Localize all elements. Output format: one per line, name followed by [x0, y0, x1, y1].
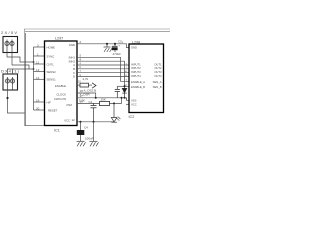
- svg-text:OUT1: OUT1: [154, 62, 162, 66]
- svg-text:H/F: H/F: [47, 100, 52, 104]
- junction top rail a: [106, 43, 108, 45]
- svg-text:CLOCK: CLOCK: [56, 92, 66, 96]
- junction enb: [124, 85, 126, 87]
- junction X2 gnd: [6, 97, 8, 99]
- LED D1: [111, 103, 120, 122]
- wire H/F pin19: [34, 101, 45, 103]
- junction bus b: [33, 68, 35, 70]
- svg-text:VSS: VSS: [131, 98, 137, 102]
- svg-text:CW/CCW: CW/CCW: [54, 97, 66, 101]
- wire INH1 to ENABLE_A: [77, 57, 129, 81]
- arrow off-page enable: [92, 83, 96, 88]
- svg-text:OSZ: OSZ: [66, 103, 72, 107]
- svg-text:INPUT3: INPUT3: [131, 70, 141, 74]
- wire X1 pin1 to net: [7, 53, 34, 63]
- frame left line: [24, 29, 26, 126]
- svg-text:SEN_A: SEN_A: [153, 80, 162, 84]
- svg-text:SYNC: SYNC: [47, 54, 55, 58]
- svg-text:SEN_B: SEN_B: [153, 85, 162, 89]
- wire X2 pin2 up: [12, 69, 14, 74]
- wire D to INPUT4: [77, 76, 129, 78]
- svg-text:CNTL: CNTL: [47, 62, 55, 66]
- resistor R1 4.7k: [80, 77, 89, 87]
- svg-text:20: 20: [36, 107, 40, 111]
- connector X1: [3, 37, 18, 53]
- capacitor C4: [77, 122, 94, 141]
- wire OSC row left: [77, 102, 100, 104]
- junction bus a: [33, 61, 35, 63]
- svg-text:12: 12: [72, 118, 76, 122]
- svg-text:19: 19: [36, 99, 40, 103]
- wire SENS1 pin14: [34, 78, 45, 80]
- svg-text:ENABLE: ENABLE: [55, 84, 66, 88]
- wire c1 gnd stub: [93, 122, 95, 141]
- wire X2 ground run: [8, 90, 25, 113]
- connector X2 pin 1: [5, 77, 9, 90]
- junction R2 out: [113, 102, 115, 104]
- connector X1 pin 1: [5, 40, 9, 53]
- svg-text:10K: 10K: [101, 98, 106, 102]
- wire left bus: [33, 47, 35, 110]
- junction top rail b: [114, 43, 116, 45]
- junction riser top: [121, 97, 123, 99]
- wire ENABLE_B seg: [117, 85, 129, 87]
- junction vss d2: [124, 97, 126, 99]
- svg-text:14: 14: [36, 76, 40, 80]
- wire CW/CCW - VSS net: [77, 98, 129, 101]
- junction clock joins: [95, 97, 97, 99]
- svg-text:470uF: 470uF: [113, 52, 122, 56]
- svg-text:OUT2: OUT2: [154, 66, 162, 70]
- svg-text:+: +: [118, 44, 120, 48]
- wire C to INPUT3: [77, 72, 129, 74]
- wire CLOCK net: [77, 93, 96, 98]
- wire R1 to arrow: [89, 84, 93, 86]
- ground symbol right: [90, 141, 99, 146]
- wire X1 pin2 to net: [12, 53, 34, 70]
- wire VCC stub: [126, 103, 129, 105]
- svg-text:C4: C4: [84, 126, 88, 130]
- ground symbol top: [104, 44, 113, 52]
- wire R2 to riser: [110, 98, 122, 104]
- wire gnd-rail bottom-left corner: [25, 33, 44, 126]
- capacitor C1: [91, 103, 97, 121]
- wire X2 pin1 up: [8, 69, 30, 74]
- wire SENS2 pin13: [34, 71, 45, 73]
- wire VS row: [77, 121, 114, 123]
- junction vs c1gnd: [93, 121, 95, 123]
- wire A to INPUT1: [77, 64, 129, 66]
- svg-text:C1: C1: [89, 100, 93, 104]
- svg-text:100nF: 100nF: [85, 137, 94, 141]
- diode D2: [122, 86, 127, 98]
- svg-text:L298: L298: [132, 40, 140, 44]
- ground symbol C4: [77, 141, 86, 146]
- capacitor C5: [112, 40, 122, 56]
- svg-text:X_OSR: X_OSR: [80, 93, 91, 97]
- svg-text:D: D: [73, 75, 75, 79]
- svg-text:ENABLE_B: ENABLE_B: [131, 85, 145, 89]
- IC1 L297 body: [45, 41, 78, 126]
- svg-text:GND: GND: [131, 46, 137, 50]
- svg-text:VCC: VCC: [131, 102, 137, 106]
- wire SYNC pin1: [34, 55, 45, 57]
- svg-text:IC2: IC2: [129, 115, 135, 119]
- wire ENABLE to R1: [77, 84, 80, 86]
- svg-text:INPUT1: INPUT1: [131, 62, 141, 66]
- svg-text:ENABLE_A: ENABLE_A: [131, 80, 145, 84]
- frame inner top line: [25, 31, 170, 33]
- svg-text:SENS1: SENS1: [47, 78, 57, 82]
- svg-text:INPUT4: INPUT4: [131, 74, 141, 78]
- wire CNTL pin11: [34, 63, 45, 65]
- connector X2: [3, 74, 18, 90]
- svg-text:OUT3: OUT3: [154, 70, 162, 74]
- svg-text:VCC: VCC: [64, 118, 70, 122]
- svg-text:OUT4: OUT4: [154, 74, 162, 78]
- frame outer top line: [24, 28, 170, 30]
- svg-text:13: 13: [36, 68, 40, 72]
- svg-text:SENS2: SENS2: [47, 70, 57, 74]
- svg-text:L297: L297: [55, 37, 63, 41]
- svg-text:IC1: IC1: [54, 129, 60, 133]
- wire gnd rail IC1 to IC2: [77, 44, 129, 48]
- svg-text:GND: GND: [69, 43, 75, 47]
- svg-text:4,7k: 4,7k: [83, 77, 89, 81]
- svg-text:RESET: RESET: [48, 109, 58, 113]
- wire HOME pin3: [34, 46, 45, 48]
- svg-text:INPUT2: INPUT2: [131, 66, 141, 70]
- wire INH2 to ENABLE_B: [77, 61, 125, 86]
- svg-text:HOME: HOME: [47, 45, 56, 49]
- junction vs c4: [80, 121, 82, 123]
- connector X2 pin 2: [10, 77, 14, 90]
- resistor R2 10K: [100, 98, 110, 106]
- capacitor C2 (enable_b filter): [115, 86, 120, 98]
- connector X1 pin 2: [10, 40, 14, 53]
- wire B to INPUT2: [77, 68, 129, 70]
- wire RESET pin20: [34, 109, 45, 111]
- svg-text:11: 11: [36, 61, 39, 65]
- IC2 L298 body: [129, 44, 164, 113]
- svg-text:3,3K: 3,3K: [79, 98, 85, 102]
